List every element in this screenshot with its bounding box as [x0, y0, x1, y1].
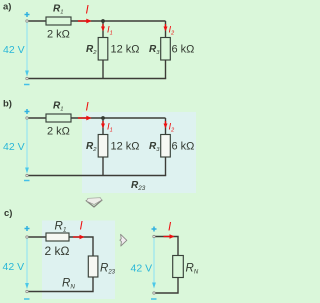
resistor R3 (a): [161, 38, 171, 61]
node terminal top (c-right): [153, 235, 155, 237]
wire: R2 branch top (a): [102, 21, 104, 38]
plus terminal mark (a): [25, 12, 30, 17]
wire: bottom (b): [29, 175, 167, 177]
wire: bottom (c-right): [156, 278, 179, 294]
wire: R3 branch bottom (a): [165, 60, 167, 79]
current arrow I2 (a): [164, 24, 168, 32]
svg-text:2 kΩ: 2 kΩ: [47, 126, 70, 138]
wire: R2 branch bottom (a): [102, 60, 104, 79]
highlight box c (R1 + R23 series region): [42, 221, 115, 300]
wire: top left (b): [29, 117, 47, 119]
node terminal bottom-left (c-left): [26, 290, 28, 292]
current arrow I1 (b): [101, 121, 105, 129]
wire: R3 branch bottom (b): [165, 157, 167, 176]
svg-text:42 V: 42 V: [3, 261, 25, 273]
node junction (b): [101, 116, 105, 120]
resistor R1 (a): [46, 17, 71, 25]
node terminal top-left (a): [26, 20, 28, 22]
source voltage arrow (c-right): [152, 238, 156, 289]
svg-text:12 kΩ: 12 kΩ: [111, 44, 140, 56]
plus terminal mark (b): [25, 109, 30, 114]
wire: bottom (c-left): [29, 277, 94, 292]
plus terminal mark (c-right): [152, 227, 157, 232]
wire: top middle (b): [71, 117, 166, 119]
big down arrow between b and c: [86, 198, 103, 207]
svg-text:42 V: 42 V: [3, 44, 25, 56]
resistor R1 (b): [46, 114, 71, 122]
svg-text:42 V: 42 V: [3, 141, 25, 153]
node terminal top-left (c-left): [26, 236, 28, 238]
wire: R3 branch top (b): [165, 118, 167, 135]
current arrow I (b): [78, 116, 92, 121]
current arrow I (c-right): [164, 234, 175, 239]
minus terminal mark (b): [24, 180, 30, 182]
svg-text:12 kΩ: 12 kΩ: [111, 141, 140, 153]
minus terminal mark (a): [24, 84, 30, 86]
minus terminal mark (c-right): [151, 298, 157, 300]
resistor R2 (b): [98, 135, 108, 158]
minus terminal mark (c-left): [24, 298, 30, 300]
node terminal bottom (c-right): [153, 292, 155, 294]
svg-text:b): b): [3, 99, 12, 110]
svg-text:6 kΩ: 6 kΩ: [172, 141, 195, 153]
wire: R2 branch bottom (b): [102, 157, 104, 176]
wire: bottom (a): [29, 78, 167, 80]
current arrow I1 (a): [101, 24, 105, 32]
wire: top right (c-left): [69, 237, 93, 256]
node terminal top-left (b): [26, 117, 28, 119]
node terminal bottom-left (b): [26, 174, 28, 176]
svg-text:42 V: 42 V: [131, 263, 153, 275]
big right arrow between c circuits: [120, 234, 127, 246]
current arrow I2 (b): [164, 121, 168, 129]
resistor RN (c-right): [173, 256, 184, 278]
svg-text:c): c): [4, 208, 12, 219]
source voltage arrow (c-left): [25, 239, 29, 290]
wire: top left (c-left): [29, 236, 47, 238]
wire: R3 branch top (a): [165, 21, 167, 38]
resistor R23 (c-left): [88, 256, 98, 277]
wire: R2 branch top (b): [102, 118, 104, 135]
source voltage arrow (b): [25, 120, 29, 174]
svg-text:2 kΩ: 2 kΩ: [47, 29, 70, 41]
current arrow I (c-left): [73, 235, 85, 240]
svg-text:a): a): [3, 2, 11, 13]
current arrow I (a): [78, 19, 92, 24]
source voltage arrow (a): [25, 23, 29, 77]
wire: top (c-right): [156, 237, 179, 256]
resistor R3 (b): [161, 135, 171, 158]
svg-text:6 kΩ: 6 kΩ: [172, 44, 195, 56]
svg-text:2 kΩ: 2 kΩ: [45, 244, 70, 258]
plus terminal mark (c-left): [25, 226, 30, 231]
resistor R2 (a): [98, 38, 108, 61]
wire: top middle (a): [71, 20, 166, 22]
node junction (a): [101, 19, 105, 23]
node terminal bottom-left (a): [26, 77, 28, 79]
wire: top left (a): [29, 20, 47, 22]
resistor R1 (c-left): [46, 233, 69, 241]
highlight box b (R2 parallel R3 region): [82, 112, 196, 193]
